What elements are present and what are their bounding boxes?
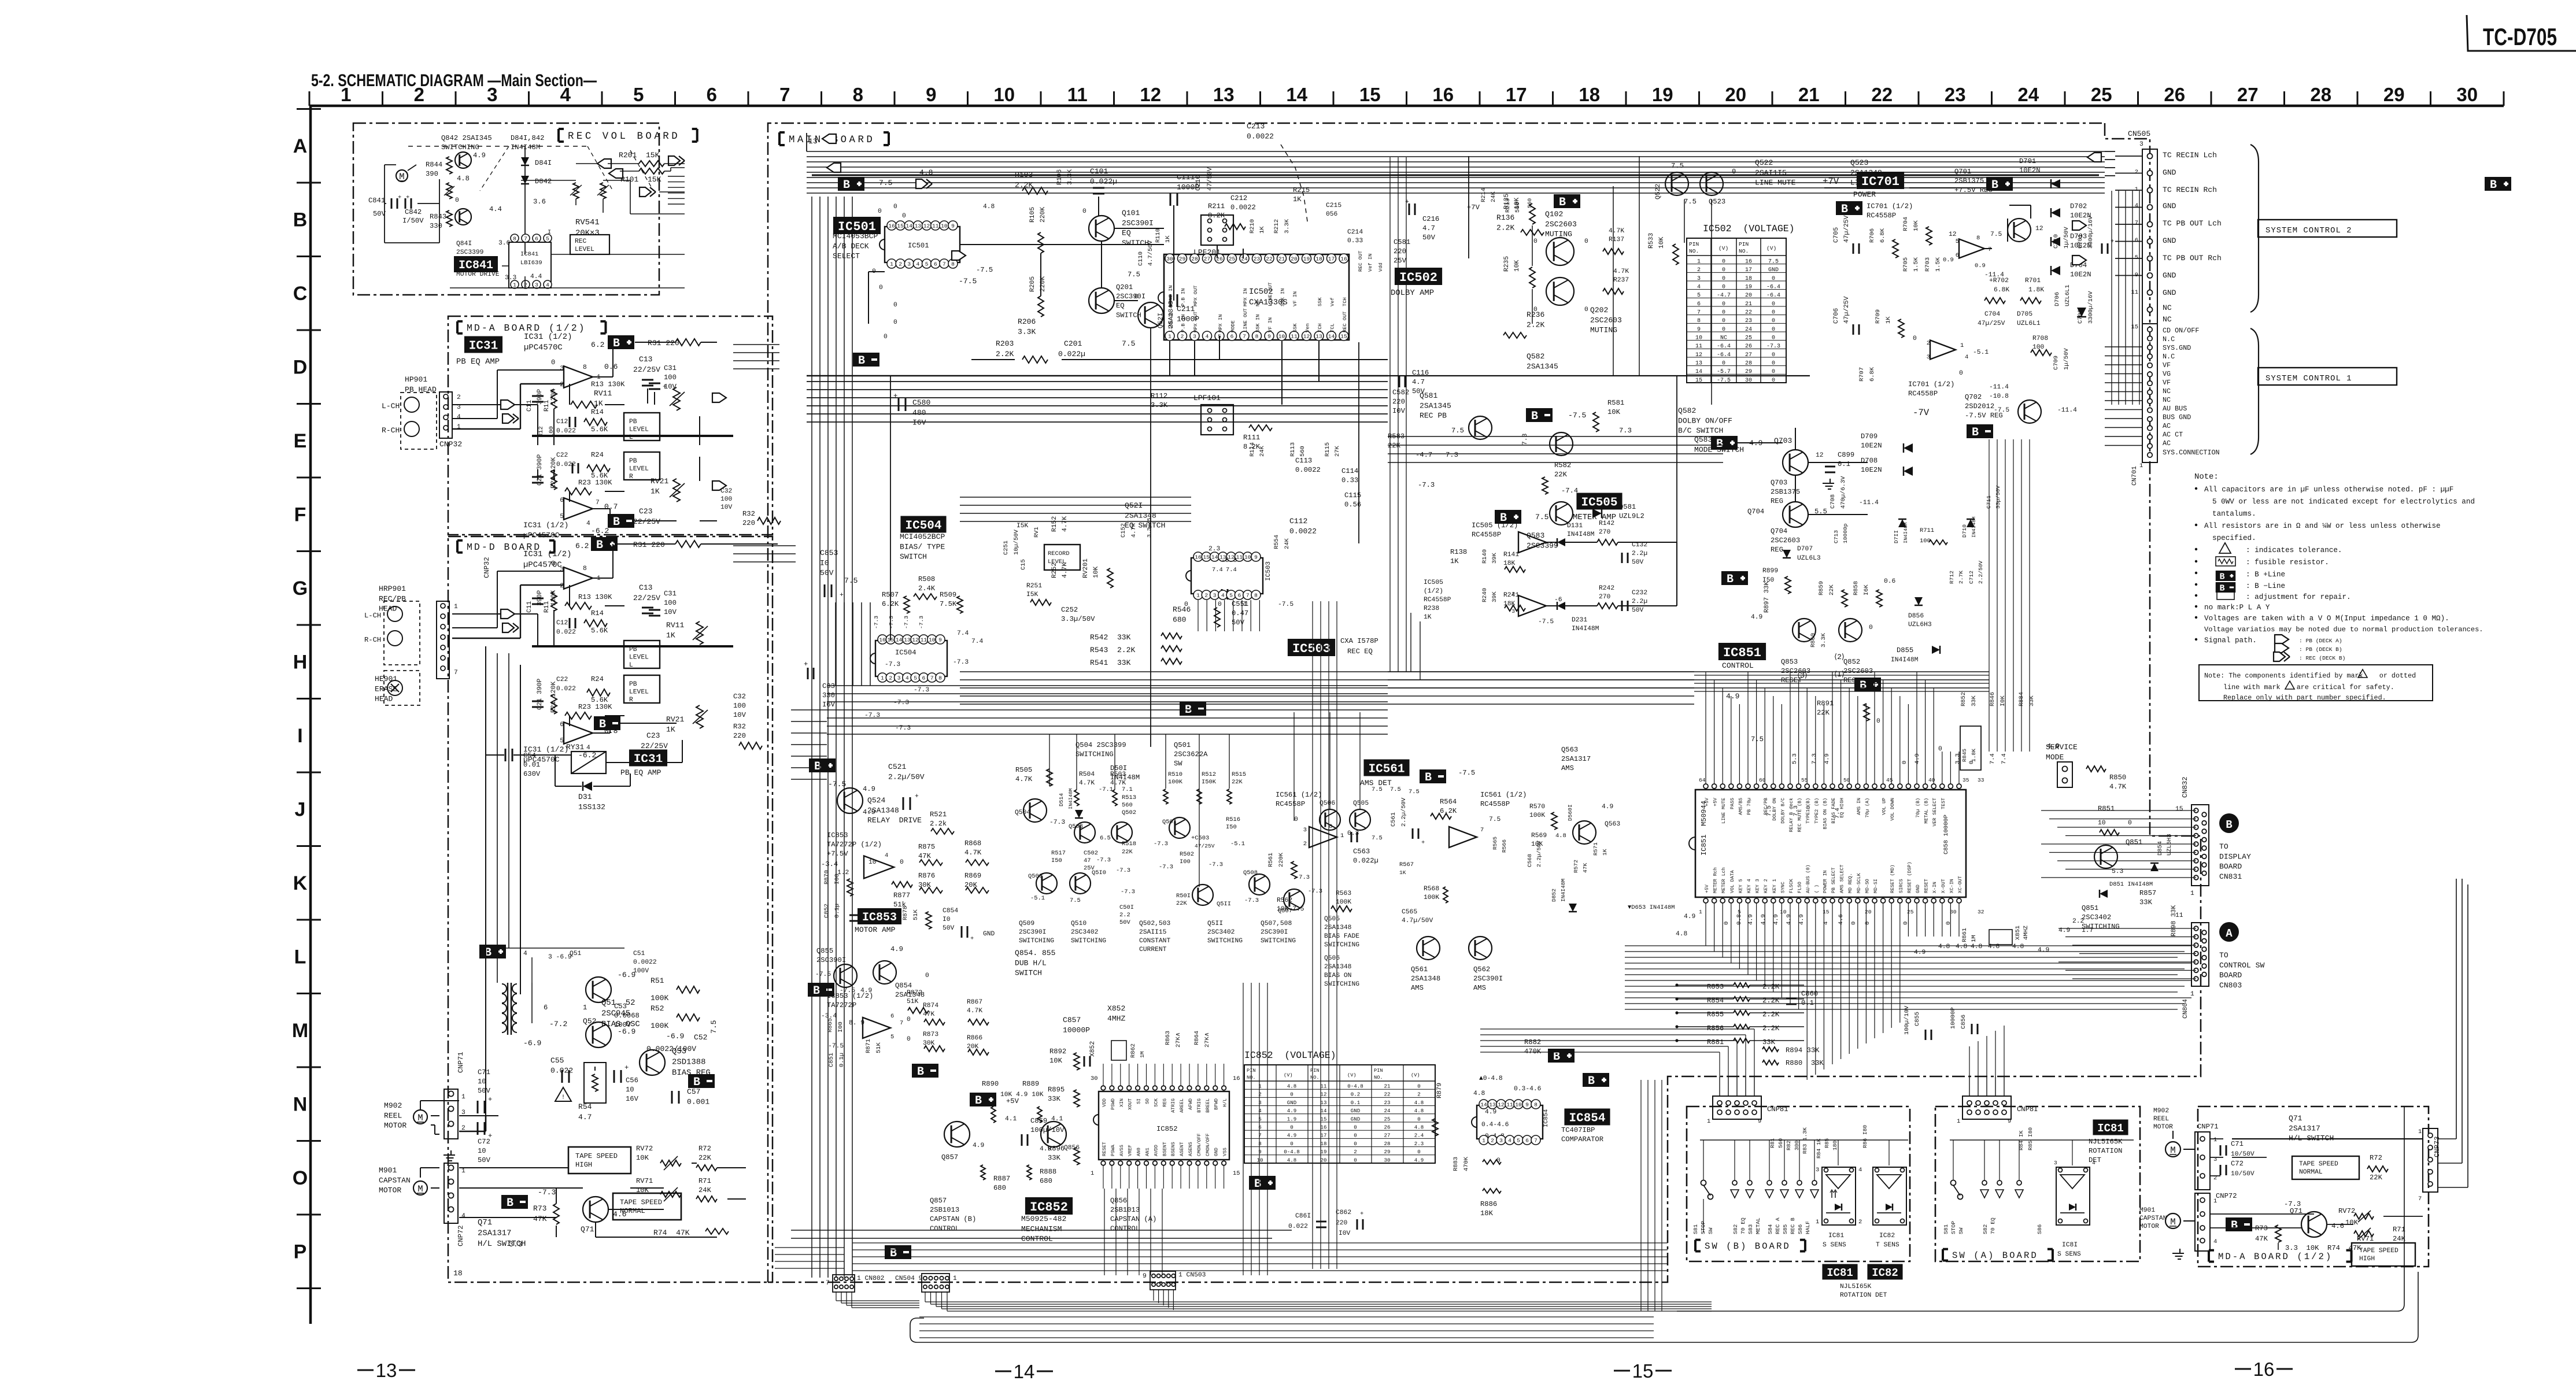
svg-text:R23 130K: R23 130K	[578, 703, 612, 711]
svg-text:R897 33K: R897 33K	[1764, 582, 1771, 613]
svg-text:25: 25	[1907, 909, 1914, 915]
Q856 transistor	[1041, 1122, 1066, 1147]
SW(A) switch S81	[1951, 1180, 1956, 1186]
svg-text:RV11: RV11	[594, 389, 612, 398]
svg-text:5: 5	[560, 513, 564, 520]
svg-text:-7.5: -7.5	[815, 971, 831, 978]
svg-text:CONTROL: CONTROL	[1110, 1224, 1140, 1233]
svg-text:no mark:P L A Y: no mark:P L A Y	[2204, 604, 2270, 612]
svg-text:7.5: 7.5	[1766, 805, 1773, 816]
svg-text:R876: R876	[918, 872, 935, 880]
bus vertical 2280 area	[1312, 601, 1313, 1269]
svg-text:C502: C502	[1084, 850, 1098, 857]
signal arrows rec vol	[597, 159, 611, 168]
bus top right horizontals	[2105, 151, 2115, 152]
svg-text:▲0-4.8: ▲0-4.8	[1479, 1075, 1503, 1082]
svg-text:13: 13	[376, 1360, 397, 1381]
svg-text:20: 20	[1291, 256, 1298, 262]
svg-text:M902: M902	[2153, 1108, 2169, 1115]
svg-text:B: B	[2219, 572, 2224, 582]
svg-text:0.0022: 0.0022	[1289, 527, 1317, 535]
svg-text:0: 0	[1902, 921, 1909, 925]
svg-text:1K: 1K	[1885, 316, 1892, 324]
svg-text:R564: R564	[1440, 798, 1457, 806]
svg-text:IC701 (1/2): IC701 (1/2)	[1867, 202, 1913, 210]
svg-text:BSENS: BSENS	[1171, 1142, 1176, 1156]
svg-text:6: 6	[1525, 1138, 1529, 1144]
svg-text:0.9: 0.9	[1975, 262, 1986, 269]
B- badge center	[1180, 702, 1206, 716]
svg-text:5: 5	[1258, 1116, 1261, 1122]
svg-text:DOLBY B/C: DOLBY B/C	[1780, 798, 1786, 824]
svg-text:R71: R71	[2393, 1226, 2405, 1234]
B+ badge comparator	[1548, 1049, 1575, 1063]
svg-text:0: 0	[884, 334, 888, 341]
svg-text:HE901: HE901	[375, 675, 397, 683]
svg-text:REEL: REEL	[384, 1111, 402, 1120]
svg-text:BOARD: BOARD	[2219, 863, 2242, 871]
svg-text:VOL UP: VOL UP	[1882, 798, 1887, 815]
svg-text:7.4: 7.4	[1834, 808, 1841, 819]
B+ badge right edge	[2485, 177, 2511, 191]
C580 480 16V	[898, 398, 900, 411]
svg-text:AC CT: AC CT	[2163, 431, 2183, 439]
svg-text:2SC390I: 2SC390I	[816, 956, 846, 964]
svg-text:27K∧: 27K∧	[1175, 1032, 1182, 1048]
svg-text:CN701: CN701	[2131, 466, 2138, 486]
svg-text:7.4: 7.4	[1226, 567, 1237, 573]
svg-text:10V: 10V	[720, 504, 733, 511]
svg-text:IC852: IC852	[1156, 1125, 1178, 1133]
svg-text:C33: C33	[822, 682, 835, 690]
svg-text:18: 18	[453, 1269, 463, 1278]
svg-text:0: 0	[893, 302, 897, 309]
svg-text:Q5II: Q5II	[1217, 901, 1231, 908]
svg-text:Q510: Q510	[1071, 920, 1086, 927]
svg-text:SIRCS: SIRCS	[1899, 879, 1904, 893]
svg-text:CN505: CN505	[2128, 129, 2150, 138]
svg-text:R504: R504	[1079, 771, 1095, 778]
svg-text:KEY 1: KEY 1	[1772, 879, 1777, 893]
svg-text:R857: R857	[2139, 889, 2156, 897]
svg-text:MOTOR DRIVE: MOTOR DRIVE	[456, 271, 500, 278]
svg-text:CMON/OFF: CMON/OFF	[1205, 1133, 1211, 1156]
svg-text:Q851: Q851	[2082, 904, 2098, 912]
svg-text:4.4: 4.4	[530, 273, 542, 280]
svg-text:ASENS: ASENS	[1188, 1142, 1193, 1156]
svg-text:+: +	[915, 793, 919, 800]
svg-text:4.8: 4.8	[919, 168, 933, 177]
svg-text:13: 13	[1321, 1100, 1327, 1106]
svg-text:(V): (V)	[1766, 245, 1776, 251]
svg-text:25: 25	[2091, 84, 2112, 105]
svg-text:14: 14	[1321, 1108, 1327, 1114]
svg-text:19: 19	[1303, 256, 1310, 262]
svg-text:R883: R883	[1453, 1157, 1459, 1171]
svg-text:SW: SW	[1708, 1227, 1714, 1234]
svg-text:60: 60	[1759, 777, 1766, 783]
motor M901 (MD-A)	[2165, 1213, 2180, 1228]
svg-text:IC31 (1/2): IC31 (1/2)	[524, 332, 572, 342]
svg-text:0: 0	[1945, 921, 1952, 925]
Q583 transistor	[1550, 502, 1573, 525]
svg-text:ROTATION DET: ROTATION DET	[1840, 1292, 1887, 1299]
MD-A BOARD (1/2) label bottom	[2208, 1250, 2210, 1262]
B- badge capstan	[885, 1245, 911, 1259]
svg-text:IC853: IC853	[862, 911, 897, 924]
bus bottom mid verticals	[1243, 983, 1244, 1275]
svg-text:30: 30	[1745, 377, 1752, 384]
svg-text:R512: R512	[1202, 771, 1216, 778]
svg-text:IC841: IC841	[459, 259, 493, 272]
svg-text:CONTROL: CONTROL	[930, 1224, 959, 1233]
svg-text:-6.9: -6.9	[523, 1039, 541, 1048]
svg-text:S83: S83	[1747, 1224, 1754, 1234]
svg-text:R23 130K: R23 130K	[578, 479, 612, 487]
svg-text:4.9: 4.9	[973, 1142, 984, 1149]
svg-text:⟨2⟩: ⟨2⟩	[1834, 653, 1845, 661]
svg-text:IC854: IC854	[1543, 1109, 1550, 1127]
svg-text:R521: R521	[930, 810, 947, 819]
svg-text:MD-A BOARD (1/2): MD-A BOARD (1/2)	[2218, 1252, 2333, 1262]
op-amp IC31b MD-D	[564, 722, 593, 744]
svg-text:X851: X851	[2015, 926, 2021, 940]
svg-text:-11.4: -11.4	[2057, 407, 2077, 414]
svg-text:2: 2	[560, 382, 564, 388]
svg-text:C111: C111	[1177, 173, 1195, 182]
svg-text:I5K: I5K	[1026, 591, 1038, 598]
svg-text:23: 23	[1384, 1100, 1391, 1106]
svg-text:R886: R886	[1480, 1200, 1497, 1208]
svg-text:VREF: VREF	[1128, 1145, 1133, 1156]
svg-text:MOTOR: MOTOR	[2139, 1223, 2159, 1230]
svg-text:2SA1345: 2SA1345	[1527, 362, 1558, 371]
svg-text:7: 7	[596, 499, 600, 506]
svg-text:-5.1: -5.1	[1973, 349, 1989, 356]
svg-text:R13 130K: R13 130K	[591, 380, 625, 388]
svg-text:C568: C568	[1527, 854, 1533, 867]
IC841 chip	[509, 242, 551, 288]
svg-text:L: L	[629, 662, 633, 669]
svg-text:24: 24	[1241, 256, 1248, 262]
svg-text:50V: 50V	[1422, 234, 1436, 242]
svg-text:-7.3: -7.3	[1418, 481, 1435, 489]
svg-text:480: 480	[912, 408, 926, 417]
svg-text:7.5: 7.5	[1535, 513, 1549, 521]
IC502 chip	[1164, 254, 1349, 340]
svg-text:9: 9	[951, 223, 955, 230]
svg-text:2SC3399: 2SC3399	[456, 249, 483, 256]
svg-text:4: 4	[2213, 1238, 2217, 1245]
svg-text:METER Rch: METER Rch	[1713, 867, 1718, 893]
svg-text:REC PB: REC PB	[1420, 412, 1447, 420]
svg-text:B: B	[2231, 1219, 2238, 1233]
svg-text:0.2: 0.2	[1351, 1091, 1360, 1098]
svg-text:GND: GND	[983, 931, 995, 938]
B- badge ams	[1420, 769, 1446, 783]
svg-text:+7V: +7V	[1467, 203, 1480, 212]
svg-text:27: 27	[1384, 1132, 1391, 1139]
svg-text:Voltage variatios may be noted: Voltage variatios may be noted due to no…	[2204, 626, 2483, 634]
svg-text:0: 0	[1938, 746, 1942, 753]
svg-text:2SC3622A: 2SC3622A	[1174, 750, 1208, 758]
svg-text:22K: 22K	[1554, 471, 1568, 479]
svg-text:3.3: 3.3	[1954, 753, 1961, 764]
svg-text:0: 0	[1082, 208, 1086, 215]
svg-text:R565: R565	[1492, 837, 1498, 850]
svg-text:C22: C22	[556, 452, 568, 459]
svg-text:Q50I: Q50I	[1162, 819, 1177, 826]
svg-text:5.6K: 5.6K	[591, 425, 608, 434]
REC VOL BOARD label	[557, 129, 560, 142]
svg-text:-7.3: -7.3	[888, 616, 895, 629]
svg-text:+5V: +5V	[1705, 798, 1710, 806]
svg-text:16: 16	[1321, 1124, 1327, 1131]
svg-text:A: A	[2226, 927, 2233, 940]
svg-text:0: 0	[1354, 1141, 1357, 1147]
svg-text:(V): (V)	[1411, 1072, 1420, 1078]
svg-text:4.7K: 4.7K	[1062, 562, 1069, 578]
R850 4.7K	[2086, 766, 2106, 772]
IC852 pins	[1101, 1086, 1106, 1090]
svg-text:0: 0	[1772, 377, 1775, 384]
svg-text:R138: R138	[1450, 548, 1467, 556]
svg-text:1K: 1K	[651, 487, 660, 495]
svg-text:270: 270	[1599, 529, 1611, 536]
svg-text:METAL (B): METAL (B)	[1924, 798, 1930, 824]
svg-text:11: 11	[2131, 289, 2138, 296]
svg-text:0: 0	[1354, 1124, 1357, 1131]
svg-text:22/25V: 22/25V	[633, 517, 660, 526]
svg-text:R210: R210	[1249, 219, 1256, 234]
svg-text:NC: NC	[2163, 315, 2172, 324]
svg-text:R533: R533	[1648, 233, 1655, 249]
svg-text:R542 33K: R542 33K	[1090, 633, 1131, 642]
svg-text:AVDD: AVDD	[1154, 1145, 1159, 1156]
svg-text:TC PB OUT Lch: TC PB OUT Lch	[2163, 219, 2222, 228]
svg-text:3: 3	[897, 675, 901, 682]
svg-text:R31 220: R31 220	[648, 339, 679, 347]
svg-text:1 CN503: 1 CN503	[1178, 1272, 1206, 1279]
svg-text:51K: 51K	[907, 998, 919, 1005]
B- badge bias	[688, 1074, 715, 1088]
Q202 muting	[1546, 277, 1574, 305]
svg-text:Voltages are taken with a V O: Voltages are taken with a V O M(Input im…	[2204, 615, 2449, 623]
svg-text:VSS: VSS	[1223, 1148, 1228, 1156]
svg-text:AMS: AMS	[1473, 984, 1486, 992]
svg-text:2.2µ/50V: 2.2µ/50V	[888, 772, 925, 781]
svg-text:220K: 220K	[1040, 207, 1047, 223]
svg-text:I/50V: I/50V	[402, 217, 424, 225]
svg-text:Q71: Q71	[478, 1218, 492, 1227]
svg-text:IC8I: IC8I	[2062, 1242, 2078, 1249]
svg-text:COMPARATOR: COMPARATOR	[1561, 1135, 1603, 1143]
svg-text:1SS132: 1SS132	[578, 802, 605, 811]
svg-text:4.8: 4.8	[1473, 1090, 1485, 1097]
svg-text:15: 15	[1203, 554, 1210, 561]
svg-text:7.4: 7.4	[971, 638, 984, 645]
svg-text:R566: R566	[1501, 839, 1507, 853]
svg-text:9: 9	[1258, 1149, 1261, 1155]
svg-text:2SB1013: 2SB1013	[930, 1206, 959, 1214]
svg-text:10: 10	[941, 223, 948, 230]
svg-text:4.6: 4.6	[2331, 1222, 2344, 1230]
svg-text:0.0022: 0.0022	[1247, 132, 1274, 140]
RY31 wires	[486, 754, 504, 756]
svg-text:SWITCH: SWITCH	[900, 553, 927, 561]
svg-text:1: 1	[2213, 1137, 2217, 1143]
svg-text:8. 9: 8. 9	[849, 1020, 864, 1027]
svg-text:ASENT: ASENT	[1180, 1142, 1185, 1156]
svg-text:13: 13	[915, 223, 922, 230]
svg-text:2SA1348: 2SA1348	[1324, 924, 1352, 931]
svg-text:ROTATION: ROTATION	[2089, 1147, 2122, 1155]
svg-text:14: 14	[1211, 554, 1218, 561]
svg-text:7.5: 7.5	[1070, 897, 1081, 904]
svg-text:2SAI1I5: 2SAI1I5	[1755, 168, 1787, 177]
svg-text:-7.3: -7.3	[1116, 867, 1130, 874]
svg-text:23: 23	[1254, 256, 1261, 262]
svg-text:Q562: Q562	[1473, 965, 1490, 974]
svg-text:IC505: IC505	[1424, 579, 1443, 586]
svg-text:22/25V: 22/25V	[641, 742, 668, 750]
svg-text:TC407IBP: TC407IBP	[1561, 1126, 1595, 1134]
svg-text:TO: TO	[2219, 951, 2228, 960]
svg-text:220: 220	[742, 519, 755, 527]
MD-A BOARD (1/2) outline bottom right	[2198, 1106, 2429, 1267]
svg-text:METAL: METAL	[1755, 1217, 1761, 1234]
svg-text:Q701: Q701	[1954, 168, 1971, 176]
svg-text:R882: R882	[1524, 1038, 1541, 1046]
svg-text:4.7K: 4.7K	[1613, 268, 1629, 275]
svg-text:H/L: H/L	[1222, 1098, 1228, 1107]
svg-text:0.022µ: 0.022µ	[1090, 177, 1117, 186]
svg-text:R888: R888	[1040, 1168, 1056, 1176]
svg-text:POWER: POWER	[1853, 190, 1876, 199]
svg-text:300: 300	[1794, 1141, 1800, 1150]
svg-text:R81: R81	[1769, 1138, 1776, 1148]
svg-text:(V): (V)	[1718, 245, 1728, 251]
svg-text:C201: C201	[1064, 339, 1082, 348]
svg-text:14: 14	[1286, 84, 1307, 105]
svg-text:1: 1	[2135, 186, 2138, 193]
svg-text:A/B DECK: A/B DECK	[833, 242, 869, 250]
svg-text:220: 220	[733, 732, 746, 740]
svg-text:3300µ/16V: 3300µ/16V	[2087, 291, 2094, 324]
svg-text:1: 1	[1699, 909, 1702, 915]
svg-text:X-IN: X-IN	[1932, 882, 1938, 893]
svg-text:R14: R14	[591, 408, 604, 416]
svg-text:N: N	[293, 1094, 308, 1116]
svg-text:0: 0	[1869, 624, 1873, 631]
MD-A BOARD label top	[456, 321, 459, 334]
svg-text:3: 3	[560, 567, 564, 573]
svg-text:4: 4	[1221, 593, 1225, 599]
svg-text:1.5K: 1.5K	[1935, 257, 1942, 272]
svg-text:7.3: 7.3	[1522, 433, 1529, 445]
B+ badge +5V	[970, 1093, 996, 1106]
svg-text:100: 100	[664, 373, 677, 382]
svg-text:IC31 (1/2): IC31 (1/2)	[523, 521, 568, 530]
wires ic501-ic502	[868, 271, 885, 272]
svg-text:CAPSTAN: CAPSTAN	[379, 1176, 411, 1185]
svg-text:R877: R877	[893, 891, 910, 900]
svg-text:100: 100	[664, 599, 677, 607]
svg-text:-7.3: -7.3	[885, 661, 900, 668]
svg-text:3.3 10K R74 47K: 3.3 10K R74 47K	[2285, 1244, 2361, 1252]
svg-text:4.9: 4.9	[1040, 1146, 1051, 1153]
wires rec vol bus	[576, 163, 598, 164]
svg-text:2.2µ/50V: 2.2µ/50V	[1400, 797, 1407, 827]
svg-text:: PB (DECK A): : PB (DECK A)	[2299, 638, 2342, 644]
svg-text:R136: R136	[1496, 213, 1514, 222]
B+ badge bias osc	[479, 945, 506, 958]
svg-text:IC854: IC854	[1569, 1112, 1605, 1126]
bus main vertical left	[811, 197, 812, 1278]
svg-text:R569: R569	[1531, 832, 1547, 839]
svg-text:0.0022: 0.0022	[1295, 466, 1321, 474]
svg-text:K: K	[293, 872, 308, 894]
svg-text:REC: REC	[575, 238, 587, 245]
svg-text:H: H	[293, 652, 308, 673]
svg-text:1K: 1K	[1165, 235, 1171, 243]
bus to CN804	[2058, 928, 2196, 929]
diode D31	[583, 782, 592, 791]
svg-text:6: 6	[560, 721, 564, 728]
svg-text:100K: 100K	[651, 994, 668, 1002]
svg-text:AMS/BS: AMS/BS	[1738, 798, 1743, 815]
B- badge ic853b	[912, 1064, 938, 1078]
svg-text:28: 28	[1191, 256, 1198, 262]
svg-text:S85: S85	[1782, 1224, 1788, 1234]
svg-text:R215: R215	[1293, 186, 1310, 194]
svg-text:0: 0	[1584, 306, 1588, 313]
svg-text:12: 12	[912, 637, 919, 643]
svg-text:R114: R114	[1249, 442, 1256, 457]
svg-text:B: B	[843, 179, 850, 192]
arrow mid	[952, 251, 966, 260]
C116 4.7 50V	[1399, 376, 1400, 387]
svg-text:47K: 47K	[1582, 863, 1588, 873]
svg-text:IC503: IC503	[1292, 642, 1330, 656]
svg-text:7.5: 7.5	[1451, 427, 1464, 435]
svg-text:KEY 4: KEY 4	[1747, 879, 1752, 893]
svg-text:7.5: 7.5	[1671, 162, 1684, 170]
svg-text:SYS.CONNECTION: SYS.CONNECTION	[2163, 449, 2220, 457]
svg-text:0.47: 0.47	[1232, 609, 1248, 617]
svg-text:AN1: AN1	[1145, 1148, 1151, 1156]
svg-text:0.022µ: 0.022µ	[1353, 857, 1378, 865]
svg-text:24K: 24K	[1284, 538, 1291, 549]
svg-text:-5.1: -5.1	[1030, 895, 1045, 902]
svg-text:R712: R712	[1949, 571, 1955, 584]
svg-text:4.9: 4.9	[1414, 1157, 1424, 1163]
svg-text:4.8: 4.8	[1414, 1100, 1424, 1106]
svg-text:6: 6	[1258, 1124, 1261, 1131]
svg-text:RC4558P: RC4558P	[1480, 800, 1510, 808]
B+ badge muting	[1554, 194, 1580, 208]
svg-text:2SA1317: 2SA1317	[1561, 755, 1591, 763]
svg-text:2SC2603: 2SC2603	[1843, 667, 1873, 675]
svg-text:Vdd: Vdd	[1378, 262, 1384, 272]
svg-text:C841: C841	[368, 197, 385, 205]
svg-text:: indicates tolerance.: : indicates tolerance.	[2246, 546, 2342, 554]
svg-text:8: 8	[1258, 1141, 1261, 1147]
svg-text:C214: C214	[1347, 229, 1363, 236]
svg-text:UZL6H3: UZL6H3	[1908, 621, 1932, 628]
svg-text:S84: S84	[1767, 1224, 1773, 1234]
svg-text:IN4I48M: IN4I48M	[1567, 531, 1595, 538]
